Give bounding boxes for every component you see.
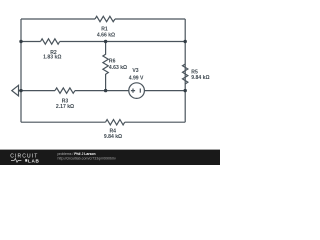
node junction R6 top xyxy=(104,40,107,43)
node junction left R2 row xyxy=(19,40,22,43)
wire left vertical xyxy=(20,19,22,122)
voltage source V3 xyxy=(129,83,145,99)
CircuitLab logo arrow mark xyxy=(25,159,27,161)
svg-text:4.99 V: 4.99 V xyxy=(129,76,144,82)
V3 plus sign xyxy=(131,89,135,93)
resistor R4 xyxy=(106,120,125,125)
wire R2 to right vertical xyxy=(60,41,186,43)
wire bottom row left xyxy=(21,121,106,123)
terminal triangle (left pin) xyxy=(12,85,19,96)
wire top-left to R1 xyxy=(21,18,95,20)
wire right vertical xyxy=(184,19,186,122)
resistor R3 xyxy=(55,88,75,93)
svg-text:problems / Phil J Larson: problems / Phil J Larson xyxy=(58,152,96,156)
wire R3 row: triangle to R3 xyxy=(19,90,56,92)
node junction R6 bottom xyxy=(104,89,107,92)
wire R2 row left xyxy=(21,41,41,43)
svg-text:9.84 kΩ: 9.84 kΩ xyxy=(104,134,122,140)
V3 minus bar xyxy=(139,89,141,93)
wire R4 to bottom-right corner xyxy=(125,121,186,123)
resistor R2 xyxy=(41,39,60,44)
svg-text:R6: R6 xyxy=(109,59,116,65)
svg-text:V3: V3 xyxy=(132,68,138,74)
CircuitLab logo wave xyxy=(11,159,21,163)
node junction right V3 row xyxy=(184,89,187,92)
resistor R1 xyxy=(95,16,115,21)
svg-text:http://circuitlab.com/c/733qm0: http://circuitlab.com/c/733qm0l90b0v xyxy=(58,156,117,160)
wire R3 to V3 xyxy=(75,90,129,92)
node junction right R2 row xyxy=(184,40,187,43)
svg-text:9.84 kΩ: 9.84 kΩ xyxy=(191,75,209,81)
svg-text:1.83 kΩ: 1.83 kΩ xyxy=(43,55,61,61)
svg-text:LAB: LAB xyxy=(28,158,40,163)
wire R1 to top-right corner xyxy=(115,18,185,20)
resistor R6 vertical xyxy=(103,42,108,91)
svg-text:4.66 kΩ: 4.66 kΩ xyxy=(97,32,115,38)
resistor R5 vertical xyxy=(183,64,188,84)
node junction left R3 row xyxy=(19,89,22,92)
watermark footer bar xyxy=(0,150,220,165)
svg-text:4.63 kΩ: 4.63 kΩ xyxy=(109,65,127,71)
svg-text:2.17 kΩ: 2.17 kΩ xyxy=(56,104,74,110)
wire V3 to right vertical xyxy=(144,90,185,92)
